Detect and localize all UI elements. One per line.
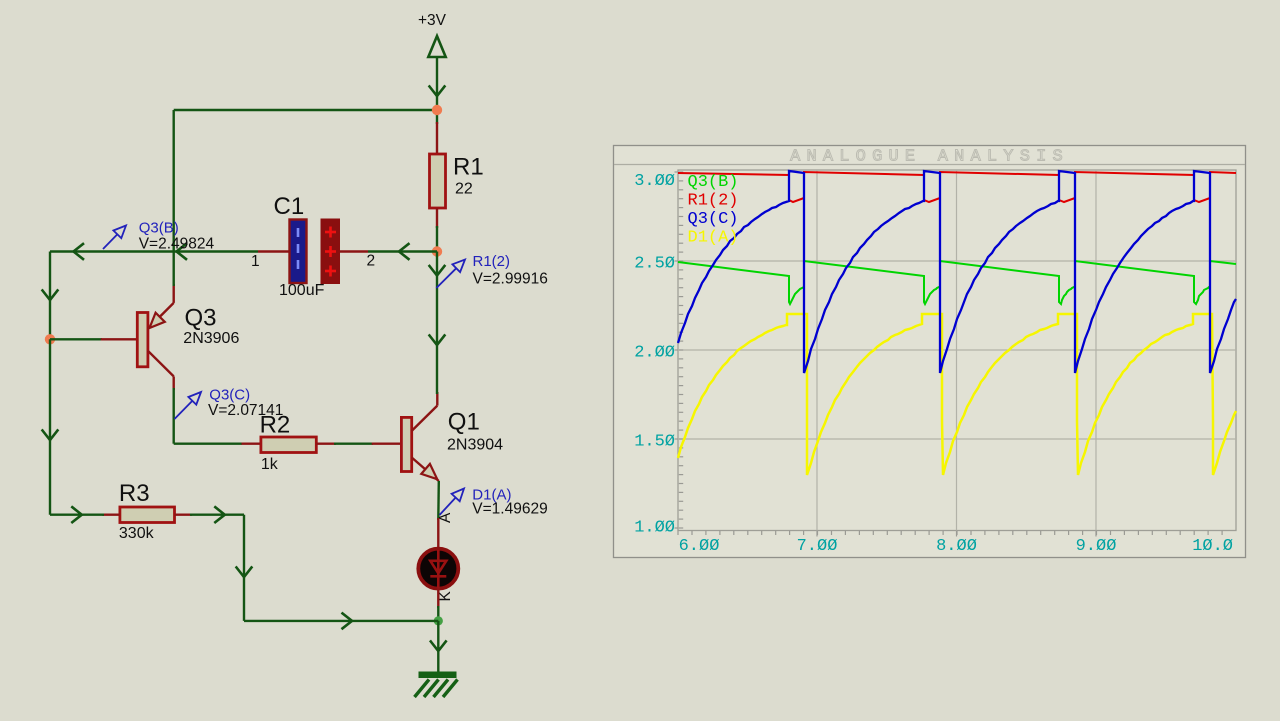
svg-text:1Ø.Ø: 1Ø.Ø: [1192, 537, 1233, 556]
node Q3 base junction: [45, 334, 55, 344]
svg-text:V=2.99916: V=2.99916: [473, 271, 548, 288]
capacitor C1 pin 2: [339, 250, 368, 252]
node R1(2) junction: [432, 246, 442, 256]
svg-text:2.5Ø: 2.5Ø: [634, 254, 675, 273]
graph title ANALOGUE ANALYSIS: [790, 148, 1069, 167]
svg-text:2N3904: 2N3904: [447, 437, 503, 454]
wire corner down: [237, 515, 252, 621]
wire junction to R1: [436, 110, 438, 124]
wire left column to R3 left: [50, 507, 104, 522]
resistor R3 pin left: [102, 514, 120, 516]
svg-text:6.ØØ: 6.ØØ: [679, 537, 720, 556]
transistor Q3 2N3906: [137, 303, 239, 377]
wire Q3 emitter up: [172, 252, 174, 303]
transistor Q1 2N3904: [401, 406, 503, 481]
led D1 anode pin: [437, 518, 439, 549]
svg-text:R2: R2: [260, 411, 291, 438]
resistor R2 pin right: [316, 443, 336, 445]
resistor R1: [430, 154, 484, 209]
svg-text:2N3906: 2N3906: [183, 330, 239, 347]
trace D1(A) yellow: [678, 314, 1236, 475]
wire power to junction: [430, 57, 445, 110]
svg-text:Q3(B): Q3(B): [139, 220, 179, 237]
svg-text:Q1: Q1: [448, 409, 480, 436]
wire junction to C1 pin 2: [368, 244, 437, 259]
pin label A: [437, 512, 454, 523]
probe Q3(C): [175, 386, 284, 419]
trace R1(2) red: [678, 172, 1236, 202]
wire bottom to LED junction: [244, 613, 438, 628]
wire R3 right to corner: [190, 507, 244, 522]
svg-text:2: 2: [367, 253, 376, 270]
svg-text:2.ØØ: 2.ØØ: [634, 343, 675, 362]
wire LED to ground junction: [437, 606, 439, 621]
resistor R1 pin bottom: [436, 208, 438, 228]
transistor Q3 base pin: [101, 338, 138, 340]
svg-text:1k: 1k: [261, 456, 279, 473]
resistor R2: [260, 411, 317, 473]
svg-text:ANALOGUE ANALYSIS: ANALOGUE ANALYSIS: [790, 148, 1069, 167]
svg-text:1: 1: [251, 253, 260, 270]
svg-text:R1(2): R1(2): [473, 253, 511, 270]
power symbol +3V: [428, 36, 445, 57]
resistor R3 pin right: [175, 514, 193, 516]
legend: [688, 173, 739, 248]
wire R1 to junction: [436, 226, 438, 252]
svg-text:Q3(C): Q3(C): [209, 386, 250, 403]
wire base junction to Q3: [50, 338, 102, 340]
svg-text:Q3(C): Q3(C): [688, 210, 739, 229]
resistor R1 pin top: [436, 122, 438, 155]
ground: [415, 672, 458, 698]
capacitor C1: [251, 193, 375, 299]
gridlines: [678, 170, 1236, 531]
wire left vertical to C1 row: [172, 110, 174, 252]
svg-text:K: K: [437, 591, 454, 602]
trace Q3(C) blue: [678, 171, 1236, 373]
probe R1(2): [436, 253, 548, 288]
led D1 cathode pin: [437, 588, 439, 608]
capacitor C1 pin 1: [258, 250, 290, 252]
svg-text:1.ØØ: 1.ØØ: [634, 518, 675, 537]
svg-text:3.ØØ: 3.ØØ: [634, 172, 675, 191]
wire top horizontal: [174, 109, 437, 111]
svg-text:1.5Ø: 1.5Ø: [634, 432, 675, 451]
wire Q3 collector row to R2: [174, 443, 242, 445]
svg-text:R3: R3: [119, 480, 150, 507]
svg-text:330k: 330k: [119, 525, 155, 542]
graph panel frame: [614, 146, 1246, 558]
svg-text:R1: R1: [453, 154, 484, 181]
svg-text:A: A: [437, 512, 454, 523]
axis minor ticks: [675, 172, 1223, 537]
wire Q3 collector down: [172, 376, 174, 443]
svg-text:D1(A): D1(A): [688, 229, 739, 248]
x axis labels: [679, 537, 1233, 556]
probe D1(A): [440, 487, 548, 518]
svg-text:Q3(B): Q3(B): [688, 173, 739, 192]
wire C1 to left column: [50, 244, 258, 259]
wire Q1 emitter to LED: [437, 481, 440, 520]
led D1: [418, 549, 458, 589]
svg-text:V=1.49629: V=1.49629: [472, 501, 547, 518]
svg-text:+3V: +3V: [418, 12, 447, 29]
svg-text:8.ØØ: 8.ØØ: [936, 537, 977, 556]
resistor R3: [119, 480, 175, 542]
svg-text:22: 22: [455, 181, 473, 198]
node top junction: [432, 105, 442, 115]
svg-text:100uF: 100uF: [279, 282, 325, 299]
trace Q3(B) green: [678, 261, 1236, 304]
svg-text:7.ØØ: 7.ØØ: [797, 537, 838, 556]
resistor R2 pin left: [242, 443, 262, 445]
pin label K: [437, 591, 454, 602]
wire Q1 collector up: [430, 252, 445, 406]
y axis labels: [634, 172, 675, 537]
node LED cathode junction: [434, 616, 443, 625]
wire left column down: [43, 252, 58, 340]
svg-text:R1(2): R1(2): [688, 192, 739, 211]
svg-text:C1: C1: [274, 193, 305, 220]
svg-text:V=2.49824: V=2.49824: [139, 236, 215, 253]
svg-text:9.ØØ: 9.ØØ: [1076, 537, 1117, 556]
power rail +3V label: [418, 12, 447, 29]
graph plot area: [678, 170, 1236, 531]
svg-text:Q3: Q3: [185, 305, 217, 332]
wire R2 to Q1 base: [334, 443, 373, 445]
transistor Q1 base pin: [372, 443, 402, 445]
probe Q3(B): [103, 220, 214, 253]
wire left column to R3: [43, 339, 58, 514]
wire junction to ground: [431, 621, 446, 672]
